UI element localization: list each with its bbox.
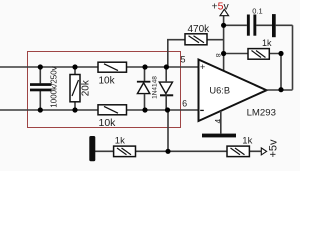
wire output net bbox=[267, 89, 293, 91]
wire +5v vertical rail bbox=[223, 16, 225, 71]
svg-text:1k: 1k bbox=[115, 136, 125, 147]
junction dots output bbox=[278, 51, 283, 92]
svg-text:1000k/250v: 1000k/250v bbox=[50, 66, 59, 107]
svg-text:+5v: +5v bbox=[268, 139, 280, 158]
diode D2 down bbox=[159, 67, 173, 110]
svg-text:470k: 470k bbox=[188, 24, 211, 35]
capacitor 0.1 plates bbox=[247, 14, 276, 37]
wire 470k branch bbox=[168, 40, 224, 67]
svg-text:8: 8 bbox=[214, 53, 221, 57]
svg-text:5: 5 bbox=[180, 55, 185, 65]
wire bottom input net bbox=[0, 109, 199, 111]
capacitor C1 plates bbox=[30, 83, 52, 91]
svg-text:0.1: 0.1 bbox=[252, 7, 262, 16]
resistor 10k top bbox=[98, 62, 127, 72]
svg-text:1k: 1k bbox=[262, 38, 272, 48]
resistor 470k bbox=[185, 34, 207, 45]
red dashed highlight box bbox=[28, 52, 181, 128]
svg-text:6: 6 bbox=[182, 98, 187, 108]
svg-text:10k: 10k bbox=[99, 117, 117, 129]
power +5v arrow top bbox=[220, 9, 229, 15]
junction dot bottom rail bbox=[165, 149, 170, 154]
diode D1 up bbox=[137, 67, 151, 110]
wire resistor R 20k leads bbox=[74, 67, 76, 110]
wire capacitor C1 leads bbox=[39, 67, 41, 110]
svg-text:20k: 20k bbox=[80, 79, 91, 96]
svg-text:+: + bbox=[200, 62, 205, 72]
svg-text:+5v: +5v bbox=[212, 0, 230, 12]
svg-text:U6:B: U6:B bbox=[209, 86, 230, 96]
svg-text:1k: 1k bbox=[242, 136, 252, 147]
resistor 20k bbox=[70, 75, 80, 102]
junction dots +5v rail bbox=[221, 23, 226, 56]
wire bottom rail bbox=[95, 150, 262, 152]
electrode bar bbox=[89, 136, 95, 161]
svg-text:4: 4 bbox=[214, 118, 223, 123]
svg-text:1N4148: 1N4148 bbox=[151, 76, 158, 99]
ground bar bbox=[202, 134, 236, 138]
resistor 10k bottom bbox=[98, 105, 127, 115]
junction dots top wire bbox=[38, 64, 169, 69]
junction dots bottom wire bbox=[38, 107, 170, 112]
wire top input net bbox=[0, 66, 199, 68]
svg-text:LM293: LM293 bbox=[247, 107, 276, 118]
resistor 1k bottom right bbox=[227, 146, 249, 157]
wire feedback branch down bbox=[167, 110, 169, 151]
op-amp U6:B bbox=[199, 60, 267, 122]
power +5v arrow right bbox=[261, 148, 266, 155]
resistor 1k bottom left bbox=[114, 146, 136, 157]
wire pin 4 to ground bbox=[220, 111, 222, 134]
svg-text:10k: 10k bbox=[99, 76, 116, 87]
resistor 1k top bbox=[248, 49, 269, 60]
wire capacitor 0.1 net bbox=[224, 25, 293, 89]
wire 1k pullup net bbox=[224, 54, 281, 90]
